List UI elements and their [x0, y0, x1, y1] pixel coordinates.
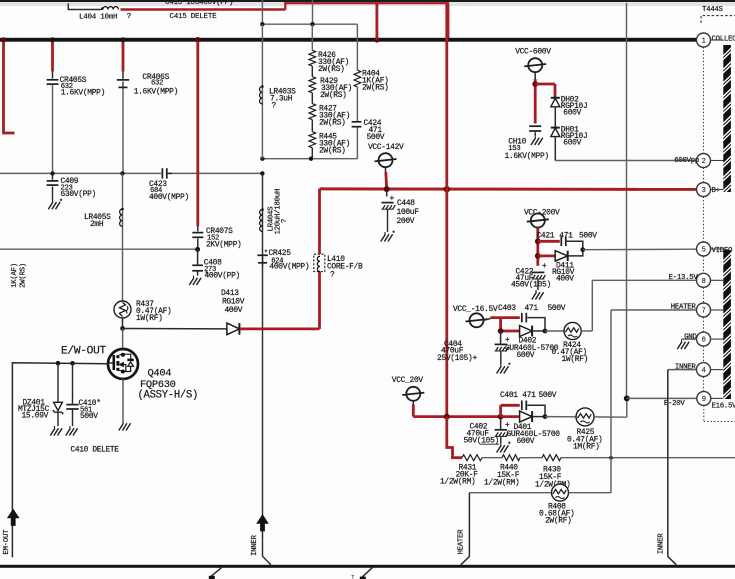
- svg-text:?: ?: [272, 102, 277, 111]
- svg-text:*: *: [264, 250, 268, 258]
- svg-text:*: *: [507, 363, 511, 371]
- svg-text:3: 3: [701, 187, 705, 195]
- svg-text:200V: 200V: [397, 217, 415, 226]
- svg-text:2W(RF): 2W(RF): [545, 517, 572, 526]
- svg-text:VCC-600V: VCC-600V: [515, 48, 551, 57]
- svg-text:INNER: INNER: [251, 534, 259, 556]
- svg-text:400V(PP): 400V(PP): [205, 272, 240, 281]
- svg-text:1K(AF): 1K(AF): [11, 263, 19, 288]
- svg-text:120uH/180uH: 120uH/180uH: [274, 189, 282, 235]
- svg-text:*: *: [507, 442, 511, 450]
- svg-text:1: 1: [701, 38, 705, 46]
- svg-text:2W(RS): 2W(RS): [319, 147, 346, 156]
- svg-text:*: *: [392, 231, 396, 239]
- svg-text:8: 8: [701, 278, 705, 286]
- svg-text:600V: 600V: [517, 437, 535, 446]
- svg-text:E/W-OUT: E/W-OUT: [61, 345, 107, 357]
- svg-text:1W(RF): 1W(RF): [136, 314, 163, 323]
- svg-text:1W(RF): 1W(RF): [562, 355, 589, 364]
- svg-text:T444S: T444S: [702, 6, 724, 14]
- svg-text:C403: C403: [498, 304, 516, 313]
- svg-text:C415 DELETE: C415 DELETE: [170, 13, 218, 21]
- svg-text:25V(105)+: 25V(105)+: [437, 354, 477, 363]
- svg-text:1.6KV(MPP): 1.6KV(MPP): [505, 152, 549, 161]
- svg-text:100uF: 100uF: [397, 208, 420, 217]
- svg-text:600V: 600V: [563, 138, 581, 147]
- svg-text:9: 9: [702, 396, 706, 404]
- svg-text:400V(MPP): 400V(MPP): [149, 193, 189, 202]
- svg-text:600Vpp: 600Vpp: [674, 157, 699, 165]
- svg-text:Q404: Q404: [148, 368, 172, 380]
- svg-text:500V: 500V: [539, 391, 557, 400]
- svg-text:471: 471: [522, 391, 536, 400]
- svg-text:2KV(MPP): 2KV(MPP): [206, 240, 241, 249]
- svg-text:C415 103400V(PP): C415 103400V(PP): [165, 0, 233, 7]
- svg-text:500V: 500V: [579, 231, 597, 240]
- svg-text:HEATER: HEATER: [458, 529, 466, 555]
- svg-text:471: 471: [525, 304, 539, 313]
- svg-text:C410 DELETE: C410 DELETE: [71, 447, 120, 455]
- svg-text:INNER: INNER: [658, 533, 666, 555]
- svg-text:450V(105): 450V(105): [511, 281, 551, 290]
- svg-text:2W(RS): 2W(RS): [319, 119, 346, 128]
- svg-text:?: ?: [281, 219, 289, 223]
- svg-text:E16.5V: E16.5V: [712, 403, 735, 411]
- svg-text:6: 6: [701, 337, 705, 345]
- svg-text:630V(PP): 630V(PP): [61, 190, 96, 199]
- svg-text:400V(MPP): 400V(MPP): [269, 263, 309, 272]
- svg-text:E-13.5V: E-13.5V: [669, 274, 699, 282]
- svg-text:EM-OUT: EM-OUT: [3, 529, 11, 555]
- svg-text:400V: 400V: [225, 306, 243, 315]
- svg-text:1/2W(RM): 1/2W(RM): [440, 478, 475, 487]
- svg-text:400V: 400V: [556, 275, 574, 284]
- svg-text:2mH: 2mH: [90, 220, 104, 229]
- svg-text:7: 7: [701, 308, 705, 316]
- svg-text:2W(RS): 2W(RS): [362, 84, 389, 93]
- svg-text:500V: 500V: [367, 133, 385, 142]
- svg-text:471: 471: [559, 231, 573, 240]
- svg-text:1.6KV(MPP): 1.6KV(MPP): [134, 88, 178, 97]
- svg-text:VCC-142V: VCC-142V: [368, 143, 404, 152]
- svg-text:500V: 500V: [548, 304, 566, 313]
- svg-text:(ASSY-H/S): (ASSY-H/S): [138, 390, 199, 402]
- svg-text:B+: B+: [712, 187, 721, 195]
- svg-text:C401: C401: [500, 391, 518, 400]
- svg-text:600V: 600V: [563, 108, 581, 117]
- svg-text:E-20V: E-20V: [664, 400, 686, 408]
- svg-text:C421: C421: [537, 231, 555, 240]
- svg-text:2W(RS): 2W(RS): [318, 65, 345, 74]
- svg-text:500V: 500V: [80, 412, 98, 421]
- svg-text:15.09V: 15.09V: [22, 412, 49, 421]
- svg-text:2W(RS): 2W(RS): [320, 91, 347, 100]
- svg-text:632: 632: [151, 80, 163, 88]
- svg-text:2W(RS): 2W(RS): [20, 263, 28, 288]
- svg-text:4: 4: [701, 367, 705, 375]
- svg-text:*: *: [59, 199, 63, 207]
- svg-text:HEATER: HEATER: [671, 304, 697, 312]
- svg-text:VCC_-16.5V: VCC_-16.5V: [453, 305, 498, 314]
- svg-text:2: 2: [701, 158, 705, 166]
- svg-text:L404 10mH: L404 10mH: [79, 14, 117, 22]
- svg-text:600V: 600V: [517, 351, 535, 360]
- svg-text:1M(RF): 1M(RF): [573, 443, 600, 452]
- svg-text:1.6KV(MPP): 1.6KV(MPP): [61, 89, 105, 98]
- svg-text:VCC_20V: VCC_20V: [392, 376, 424, 385]
- svg-text:5: 5: [701, 247, 705, 255]
- svg-text:1/2W(RM): 1/2W(RM): [484, 479, 519, 488]
- svg-text:GND: GND: [684, 333, 697, 341]
- svg-text:?: ?: [127, 13, 131, 21]
- svg-text:?: ?: [330, 271, 335, 280]
- svg-text:+: +: [542, 263, 547, 271]
